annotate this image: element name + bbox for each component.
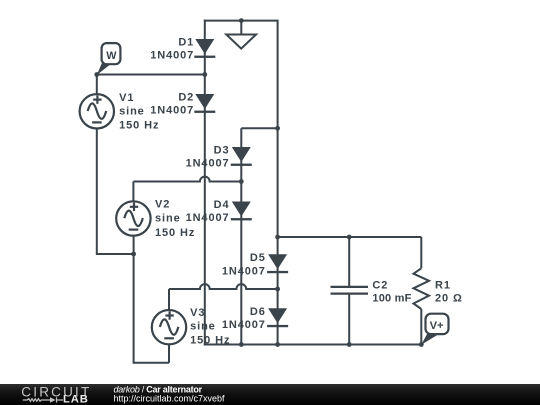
source V2 — [116, 201, 150, 235]
svg-text:20 Ω: 20 Ω — [435, 293, 463, 305]
svg-text:100 mF: 100 mF — [372, 293, 411, 305]
wire V3 bottom stub — [168, 344, 170, 363]
diode D6 — [267, 308, 288, 327]
wire R1 bottom stub — [420, 309, 422, 345]
svg-text:1N4007: 1N4007 — [222, 319, 266, 331]
svg-text:1N4007: 1N4007 — [150, 50, 194, 62]
svg-text:V2: V2 — [155, 199, 170, 211]
capacitor C2 top plate — [331, 286, 369, 288]
svg-text:http://circuitlab.com/c7xvebf: http://circuitlab.com/c7xvebf — [114, 394, 226, 404]
wire phase 3 with two hops — [169, 284, 278, 289]
resistor R1 zigzag — [414, 268, 430, 309]
diode D1 — [194, 39, 215, 58]
wire top link to C2 R1 — [278, 236, 422, 238]
wire V3 top stub — [168, 289, 170, 310]
svg-text:D4: D4 — [214, 199, 230, 211]
capacitor C2 bottom plate — [331, 293, 369, 295]
source V1 — [80, 94, 114, 128]
wire phase 2 with hop — [133, 177, 241, 182]
svg-text:V3: V3 — [190, 307, 205, 319]
svg-text:1N4007: 1N4007 — [150, 105, 194, 117]
wire middle column vertical — [240, 128, 242, 344]
wire right column vertical — [277, 20, 279, 345]
wire V2 top stub — [132, 182, 134, 202]
diode D5 — [267, 254, 288, 273]
svg-text:LAB: LAB — [63, 393, 89, 405]
svg-text:150 Hz: 150 Hz — [155, 227, 195, 239]
svg-text:1N4007: 1N4007 — [222, 265, 266, 277]
svg-text:D6: D6 — [250, 306, 266, 318]
node phase 1 D1 D2 junction — [202, 72, 207, 77]
svg-text:sine: sine — [190, 320, 216, 332]
svg-text:D5: D5 — [250, 252, 266, 264]
svg-text:R1: R1 — [435, 280, 451, 292]
svg-text:sine: sine — [155, 213, 181, 225]
diode D2 — [194, 94, 215, 113]
svg-text:1N4007: 1N4007 — [186, 212, 230, 224]
wire C2 top stub — [348, 237, 350, 287]
node D4 cathode rail — [239, 342, 244, 347]
node phase 2 D3 D4 junction — [239, 179, 244, 184]
wire V1 top stub — [96, 75, 98, 95]
node D3 anode — [275, 126, 280, 131]
svg-text:D1: D1 — [178, 37, 194, 49]
source V3 — [152, 310, 186, 344]
flag W — [97, 43, 121, 75]
node D5 anode branch — [275, 235, 280, 240]
node C2 top — [347, 235, 352, 240]
node phase 3 D5 D6 junction — [275, 287, 280, 292]
svg-text:C2: C2 — [372, 280, 388, 292]
node top rail ground junction — [239, 18, 244, 23]
ground symbol — [226, 21, 256, 49]
node phase 1 left — [94, 72, 99, 77]
wire neutral down and right — [134, 254, 169, 363]
logo resistor-diode line — [23, 397, 63, 402]
svg-text:D3: D3 — [214, 145, 230, 157]
diode D4 — [231, 202, 252, 221]
svg-text:V1: V1 — [119, 92, 134, 104]
wire V2 bottom stub — [133, 236, 135, 254]
svg-text:150 Hz: 150 Hz — [190, 334, 230, 346]
node neutral V1 V2 — [131, 252, 136, 257]
wire V1 bottom to neutral — [97, 128, 134, 254]
wire C2 bottom stub — [348, 294, 350, 345]
wire phase 1 horizontal — [97, 74, 205, 76]
wire R1 top stub — [420, 237, 422, 268]
wire D3 anode link — [241, 127, 277, 129]
diode D3 — [231, 147, 252, 166]
wire bottom rail — [204, 344, 421, 346]
wire left column vertical — [204, 20, 206, 346]
svg-text:1N4007: 1N4007 — [186, 158, 230, 170]
node C2 bottom — [347, 342, 352, 347]
footer bar — [0, 384, 540, 405]
svg-text:D2: D2 — [178, 92, 194, 104]
svg-text:sine: sine — [119, 105, 145, 117]
svg-text:V+: V+ — [430, 320, 444, 332]
wire top rail — [204, 20, 278, 22]
node D6 cathode rail — [275, 342, 280, 347]
node V+ output — [419, 342, 424, 347]
svg-text:W: W — [106, 50, 117, 62]
flag V+ — [421, 314, 448, 345]
svg-text:150 Hz: 150 Hz — [119, 120, 159, 132]
